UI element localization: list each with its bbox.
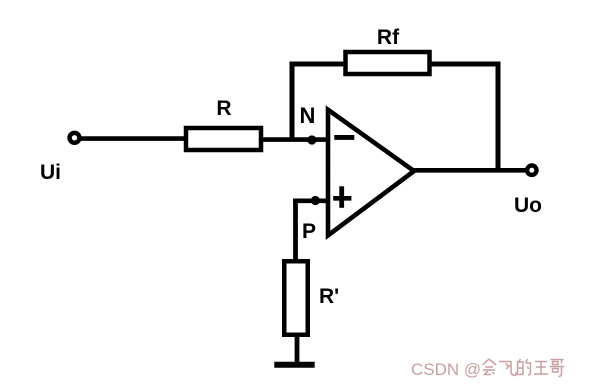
- watermark 会飞的王哥 (hand-drawn CJK glyphs): [483, 359, 565, 377]
- op-amp inverting input minus sign: [334, 135, 354, 140]
- glyph 会: [483, 359, 497, 365]
- glyph 哥: [551, 359, 564, 361]
- wire: op-amp output to terminal Uo: [408, 168, 528, 173]
- glyph 王: [535, 361, 547, 363]
- resistor R: [186, 128, 261, 150]
- svg-text:R': R': [319, 285, 339, 308]
- wire: feedback top right horizontal: [428, 62, 501, 67]
- wire: non-inverting input stub (node P): [293, 198, 330, 203]
- wire: resistor R' down to ground: [295, 333, 300, 366]
- terminal Uo (output terminal circle): [527, 166, 536, 175]
- resistor Rf: [346, 52, 430, 74]
- wire: node P down to resistor R': [293, 199, 298, 263]
- svg-text:Rf: Rf: [377, 26, 400, 49]
- terminal Ui (input terminal circle): [70, 133, 80, 143]
- glyph 的: [519, 359, 521, 362]
- wire: resistor R to op-amp inverting input (node N): [261, 137, 330, 142]
- svg-text:P: P: [302, 220, 316, 243]
- op-amp non-inverting input plus sign: [333, 186, 351, 208]
- ground: [274, 362, 314, 368]
- svg-text:Uo: Uo: [514, 194, 542, 217]
- svg-text:R: R: [216, 97, 231, 120]
- svg-text:CSDN @: CSDN @: [411, 360, 481, 379]
- svg-text:N: N: [300, 103, 316, 128]
- op-amp U1 triangle: [328, 110, 414, 236]
- glyph 飞: [499, 362, 517, 376]
- wire: feedback right vertical down to output: [496, 62, 501, 171]
- wire: feedback top left horizontal: [290, 62, 348, 67]
- wire: feedback left vertical (node N up to Rf): [290, 62, 295, 140]
- svg-text:Ui: Ui: [40, 161, 61, 184]
- wire: input terminal to resistor R: [81, 136, 186, 141]
- node N junction dot: [307, 135, 316, 144]
- node P junction dot: [311, 196, 320, 205]
- resistor R': [284, 261, 308, 335]
